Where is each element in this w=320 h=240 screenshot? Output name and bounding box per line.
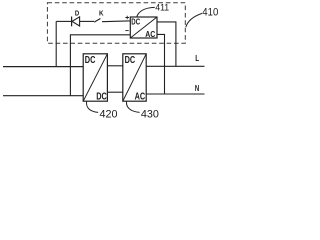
- svg-text:DC: DC: [96, 91, 107, 102]
- svg-text:430: 430: [141, 108, 159, 120]
- svg-text:AC: AC: [145, 30, 155, 39]
- svg-text:DC: DC: [85, 55, 96, 66]
- svg-text:K: K: [99, 9, 104, 18]
- svg-text:410: 410: [202, 7, 218, 19]
- svg-text:AC: AC: [135, 91, 146, 102]
- svg-text:DC: DC: [131, 17, 140, 26]
- svg-text:N: N: [195, 84, 199, 93]
- svg-text:420: 420: [100, 108, 118, 120]
- svg-text:DC: DC: [125, 55, 136, 66]
- svg-text:411: 411: [155, 3, 169, 13]
- svg-text:L: L: [195, 53, 199, 63]
- svg-text:D: D: [75, 9, 80, 18]
